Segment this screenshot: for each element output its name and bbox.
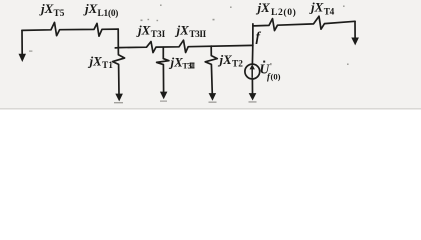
ground arrowhead T1 [115,94,123,102]
svg-text:T3II: T3II [189,30,206,40]
ground arrowhead right [351,38,359,46]
svg-text:jX: jX [88,53,103,68]
source arrowhead up [250,64,255,69]
svg-text:T2: T2 [232,59,243,69]
label jXT1 [88,53,114,71]
svg-text:jX: jX [309,0,324,15]
wire below source circle [251,79,253,94]
svg-text:L2(0): L2(0) [271,7,296,18]
svg-text:(0): (0) [271,72,281,82]
reactance jXT3III branch [157,47,169,92]
wire bus with reactance zigzags [118,40,253,52]
source circle U [245,64,260,79]
paper background [0,0,421,110]
wire top-left with reactance zigzags [22,22,118,36]
label jXL2(0) [256,0,297,18]
svg-text:jX: jX [136,23,151,38]
label jXT4 [309,0,335,17]
svg-text:jX: jX [39,1,54,16]
wire right drop [354,21,356,38]
label jXT5 [39,1,65,19]
svg-text:T5: T5 [54,9,65,19]
label jXT3III [169,55,195,71]
svg-text:T1: T1 [102,61,113,71]
svg-text:jX: jX [169,55,184,70]
svg-text:jX: jX [256,0,271,15]
source arrow shaft [251,69,253,78]
ground arrowhead left [19,54,27,62]
bottom scan edge [0,108,421,109]
wire left drop [21,30,23,55]
label jXT3II [175,23,207,40]
svg-text:jX: jX [218,52,233,67]
svg-text:T3I: T3I [151,30,166,40]
svg-text:jX: jX [175,23,190,38]
ground arrowhead T3III [160,92,168,100]
reactance jXT1 branch [113,48,125,95]
label jXL1(0) [83,1,118,19]
wire drop at T-junction [117,29,119,47]
scan noise specks [29,5,349,66]
label Uf(0) [260,61,281,82]
faint dashes under ground arrows [114,101,257,104]
ground arrowhead source [249,93,257,100]
wire stub left of junction [115,47,118,49]
label jXT2 [218,52,244,70]
svg-text:L1(0): L1(0) [98,8,119,19]
wire f vertical [251,24,254,65]
reactance jXT2 branch [205,46,217,94]
label jXT3I [136,23,166,40]
wire top-right with reactance zigzags [253,16,355,30]
svg-text:T4: T4 [324,7,335,17]
svg-text:jX: jX [83,1,98,16]
ground arrowhead T2 [209,93,217,101]
